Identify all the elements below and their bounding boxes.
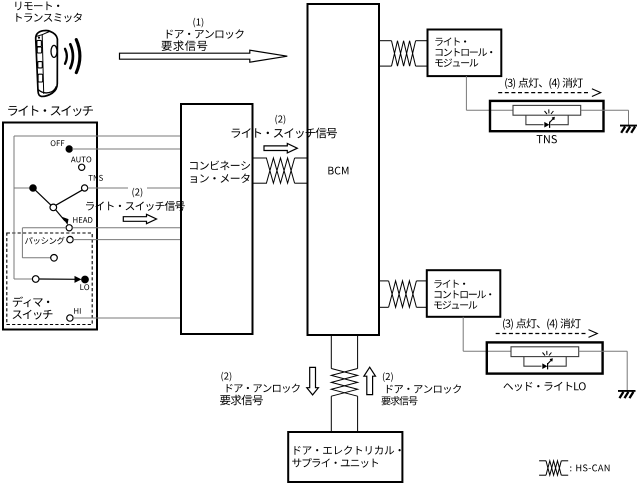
signal arrow (2) down	[307, 367, 319, 395]
label door unlock request (left)	[227, 384, 300, 393]
radio waves	[65, 40, 80, 73]
label combination meter	[190, 161, 250, 171]
contact HI	[67, 315, 73, 321]
wire: common rail	[13, 136, 15, 279]
HS-CAN legend symbol	[539, 460, 546, 462]
label light control module 2	[434, 280, 465, 288]
label dimmer switch	[13, 297, 50, 308]
signal arrow (1)	[120, 50, 288, 62]
TNS lamp box	[490, 101, 604, 131]
signal arrow (2) up	[364, 367, 376, 394]
label (3)(4) bottom	[503, 318, 581, 329]
label door unlock request (right)	[387, 384, 461, 393]
label (2) door unlock left	[221, 372, 231, 382]
contact OFF	[66, 146, 72, 152]
switch arm common-pivot-TNS	[30, 185, 36, 191]
TNS bulb loop	[526, 115, 568, 125]
wire HEAD row	[72, 227, 180, 229]
dashed arrow (3)(4) bottom	[496, 333, 587, 335]
label door electrical supply unit	[295, 446, 401, 455]
HS-CAN twisted pair BCM-module2	[379, 280, 389, 282]
label TNS	[537, 135, 557, 143]
wire TNS row	[88, 187, 128, 189]
signal arrow (2) light switch signal left	[123, 214, 156, 223]
label HS-CAN	[570, 464, 609, 471]
TNS bulb rays	[545, 109, 554, 114]
label: light switch	[8, 106, 93, 117]
label AUTO	[71, 157, 91, 163]
wire module2 to headlight	[462, 317, 464, 351]
wire TNS to ground	[581, 109, 629, 111]
label: remote transmitter	[15, 2, 59, 11]
wire module1 to TNS	[465, 76, 467, 110]
ground symbol TNS	[620, 125, 637, 127]
label (2) mid-left	[132, 188, 142, 198]
dimmer pivot contact	[32, 276, 39, 283]
wire OFF row	[72, 148, 181, 150]
dimmer arm to LO with arrowhead	[39, 278, 78, 280]
headlight LO lamp box	[487, 342, 603, 373]
wire: rail to common contact	[14, 187, 31, 189]
wire HI row	[73, 317, 180, 319]
contact passing	[67, 236, 73, 242]
label HI	[74, 308, 80, 314]
headlight bulb rays	[543, 351, 552, 356]
wire dimmer row	[14, 278, 32, 280]
label HEAD	[73, 217, 92, 223]
contact LO	[82, 276, 89, 283]
light control module 1 box	[428, 30, 502, 77]
contact HEAD	[66, 225, 72, 231]
passing pivot contact	[51, 254, 58, 261]
HS-CAN twisted pair BCM-module1	[379, 40, 392, 42]
label LO	[80, 284, 89, 290]
label (2) meter-BCM	[275, 115, 285, 125]
label OFF	[51, 140, 65, 146]
combination meter box	[181, 104, 253, 334]
door electrical supply unit box	[288, 432, 402, 482]
remote transmitter key fob icon	[36, 31, 58, 97]
label (2) door unlock right	[383, 372, 393, 382]
dashed arrow (3)(4) top	[498, 92, 590, 94]
label light control module 1	[435, 38, 466, 46]
TNS LED symbol	[544, 122, 549, 128]
headlight bulb rectangle	[511, 347, 579, 357]
label light switch signal (left)	[86, 201, 185, 211]
label door unlock request (top)	[167, 29, 244, 39]
label (3)(4) top	[505, 78, 583, 89]
ground symbol headlight	[618, 390, 636, 392]
headlight LED symbol	[542, 363, 547, 369]
dimmer switch dashed box	[7, 233, 92, 325]
signal arrow (2) mid	[264, 144, 297, 153]
label light switch signal (mid)	[232, 128, 337, 139]
contact AUTO	[79, 164, 85, 170]
light control module 2 box	[427, 270, 501, 317]
headlight bulb loop	[524, 357, 566, 367]
switch arm pivot-HEAD with arrowhead	[56, 210, 65, 221]
contact TNS	[82, 185, 88, 191]
TNS bulb rectangle	[513, 105, 581, 115]
label BCM	[328, 167, 348, 175]
label passing	[25, 237, 65, 245]
wire passing row	[73, 239, 180, 241]
switch pivot	[50, 204, 57, 211]
wire headlight to ground	[579, 350, 628, 352]
label headlight LO	[504, 382, 586, 391]
wire HEAD to passing pivot	[22, 227, 66, 229]
HS-CAN twisted pair meter-BCM	[253, 157, 267, 159]
label TNS	[89, 175, 103, 181]
label (1)	[193, 18, 203, 28]
HS-CAN twisted pair BCM-door unit	[330, 335, 332, 369]
light switch box	[3, 123, 97, 330]
BCM box	[308, 4, 380, 335]
